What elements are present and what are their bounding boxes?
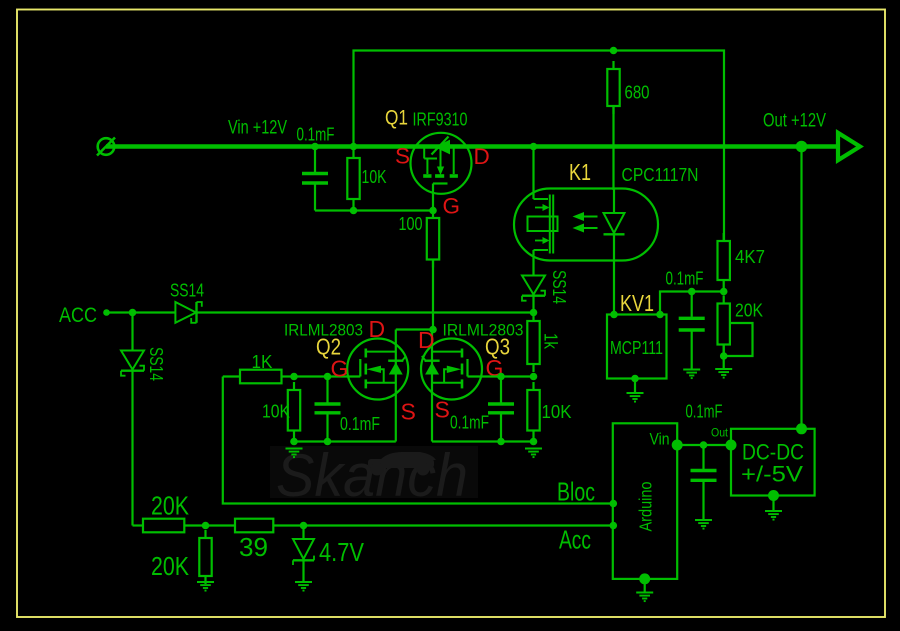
node Arduino GND pin (639, 573, 650, 584)
wire 100 to drain node (432, 260, 434, 330)
svg-text:0.1mF: 0.1mF (666, 269, 704, 289)
module Arduino box (613, 423, 677, 579)
svg-text:4K7: 4K7 (735, 247, 765, 267)
svg-text:Vin +12V: Vin +12V (228, 117, 287, 139)
output arrow Out +12V (838, 133, 860, 160)
svg-text:100: 100 (399, 214, 423, 234)
wire ACC line (107, 311, 176, 313)
resistor 10K Q3 (527, 382, 539, 439)
wire DC-DC ground stem (772, 496, 774, 512)
diode SS14 horizontal ACC (175, 302, 201, 323)
svg-text:680: 680 (625, 83, 650, 103)
node Q3 gate / C 0.1mF (497, 373, 505, 381)
node C-KV1 top (688, 288, 696, 296)
svg-text:IRF9310: IRF9310 (413, 110, 468, 130)
resistor 1K (240, 370, 282, 384)
node rail / K1 pin (530, 143, 538, 151)
resistor 100 (427, 210, 439, 268)
svg-text:G: G (443, 194, 461, 219)
svg-text:1K: 1K (252, 352, 273, 372)
node top bracket / 680 (610, 47, 618, 55)
svg-text:+/-5V: +/-5V (741, 462, 803, 487)
svg-text:D: D (418, 327, 435, 353)
svg-text:Arduino: Arduino (636, 482, 656, 532)
transistor Q2 IRLML2803 (347, 330, 408, 442)
svg-text:0.1mF: 0.1mF (340, 414, 380, 434)
wire KV1 ground stem (634, 379, 636, 394)
node Arduino Bloc pin (610, 500, 618, 508)
node Arduino Acc pin (610, 522, 618, 530)
svg-text:0.1mF: 0.1mF (297, 125, 335, 145)
svg-text:Vin: Vin (650, 430, 670, 449)
svg-text:K1: K1 (569, 159, 591, 185)
wire Arduino Vin to DC-DC (677, 444, 731, 446)
wire 20K tap (724, 323, 753, 356)
svg-text:MCP111: MCP111 (610, 338, 663, 358)
ground Q2 (286, 449, 303, 458)
wire left SS14 to Acc row (131, 371, 133, 526)
wire Q2 drain jog (396, 328, 433, 330)
svg-text:Acc: Acc (559, 525, 591, 555)
svg-text:Skanch: Skanch (276, 442, 468, 509)
svg-text:IRLML2803: IRLML2803 (443, 321, 524, 340)
K1 output MOSFET structure (528, 147, 558, 276)
resistor 20K horizontal (143, 519, 184, 533)
wire ACC to left SS14 (131, 313, 133, 351)
wire Bloc net (223, 377, 614, 504)
transistor Q1 IRF9310 P-MOSFET (411, 133, 472, 211)
resistor 10K Q2 (288, 382, 300, 439)
svg-text:10K: 10K (542, 402, 572, 422)
ground 20K right (715, 369, 732, 378)
svg-text:Q1: Q1 (385, 106, 408, 130)
node Q3 rail ground (530, 438, 538, 446)
wire main +12V rail (106, 144, 838, 149)
wire top bypass bracket (354, 51, 725, 242)
wire 1K to node (282, 375, 295, 377)
node ACC junction (129, 309, 137, 317)
svg-text:20K: 20K (151, 493, 189, 521)
node KV1 pin top-right (656, 311, 664, 319)
svg-text:20K: 20K (151, 553, 189, 581)
svg-text:39: 39 (239, 534, 268, 562)
wire 1K left stub (223, 375, 240, 377)
node 20K vertical tap (202, 522, 210, 530)
svg-text:ACC: ACC (59, 304, 97, 327)
transistor Q3 IRLML2803 (421, 330, 482, 442)
node 20K bottom (720, 352, 728, 360)
svg-text:Out: Out (711, 428, 729, 440)
svg-text:S: S (435, 397, 450, 423)
node D Q2/Q3 (429, 326, 437, 334)
node ACC / 1k chain (530, 309, 538, 317)
ground C-KV1 (683, 370, 700, 379)
K1 light arrows (573, 212, 598, 233)
K1 LED (604, 189, 625, 315)
svg-text:10K: 10K (362, 167, 387, 187)
capacitor C-Q3 0.1mF (488, 377, 514, 442)
node 10K bottom (350, 207, 358, 215)
node zener tap (300, 522, 308, 530)
node rail / DC-DC feed (796, 141, 808, 153)
wire Arduino ground stem (644, 579, 646, 593)
ground zener (295, 582, 312, 591)
node C-Q3 bottom (497, 438, 505, 446)
svg-text:0.1mF: 0.1mF (686, 402, 723, 422)
diode SS14 left vertical (121, 351, 144, 376)
svg-text:1k: 1k (541, 333, 561, 350)
node C-Q2 bottom (324, 438, 332, 446)
svg-text:SS14: SS14 (146, 347, 166, 381)
resistor 20K right (718, 296, 730, 353)
svg-text:CPC1117N: CPC1117N (622, 165, 699, 185)
svg-text:4.7V: 4.7V (319, 539, 364, 567)
wire Q2 source rail (294, 440, 396, 442)
node rail / C-in (311, 143, 319, 151)
wire Acc row to Arduino (273, 524, 613, 526)
ground C-DCDC (695, 520, 712, 529)
svg-text:0.1mF: 0.1mF (450, 413, 489, 433)
svg-text:S: S (401, 399, 416, 425)
ground KV1 (627, 393, 644, 402)
ground Arduino (636, 593, 653, 602)
svg-text:D: D (369, 316, 386, 342)
svg-text:SS14: SS14 (170, 281, 204, 301)
module DC-DC box (731, 429, 815, 496)
node Q1 gate (429, 207, 437, 215)
wire gate row under Q1 (315, 209, 433, 211)
node DC-DC Vin pin (726, 440, 737, 451)
wire 680 to K1 LED (612, 106, 614, 190)
svg-text:10K: 10K (262, 402, 290, 422)
zener diode 4.7V (293, 526, 314, 583)
node KV1 pin bottom (631, 375, 639, 383)
node DC-DC +12V pin (796, 423, 807, 434)
diode SS14 under K1 (522, 276, 545, 313)
node Q2 gate / 1K / 10K (290, 373, 298, 381)
wire Q3 source rail (432, 440, 534, 442)
svg-text:S: S (395, 144, 410, 169)
node ACC terminal (103, 309, 110, 316)
resistor 10K rail (347, 150, 359, 207)
svg-text:20K: 20K (735, 301, 763, 321)
watermark background (270, 446, 478, 498)
wire +12V feed to DC-DC (800, 147, 802, 429)
wire Acc bottom row (133, 524, 144, 526)
svg-text:KV1: KV1 (620, 290, 654, 316)
svg-text:SS14: SS14 (549, 270, 569, 304)
capacitor C-KV1 0.1mF (679, 292, 705, 370)
node KV1 pin top-left (610, 311, 618, 319)
IC KV1 MCP111 box (607, 315, 667, 379)
capacitor C-DCDC 0.1mF (691, 445, 717, 520)
wire KV1 to 4K7 node (660, 292, 724, 315)
node Q2 gate / C 0.1mF (324, 373, 332, 381)
resistor 39 (235, 519, 273, 533)
ground 20K vertical (197, 582, 214, 591)
wire 20K bottom (723, 345, 725, 357)
capacitor C-Q2 0.1mF (315, 377, 341, 442)
resistor 4K7 (718, 233, 730, 288)
svg-text:Bloc: Bloc (557, 477, 595, 507)
optocoupler K1 CPC1117N body (514, 189, 658, 261)
resistor 20K vertical (199, 530, 211, 584)
wire between 20K and 39 (184, 524, 235, 526)
resistor 680 (607, 61, 619, 114)
node Q2 rail ground (290, 438, 298, 446)
node Arduino Vin pin (672, 440, 683, 451)
ground Q3 (525, 449, 542, 458)
wire Q3 gate net (468, 375, 534, 377)
node rail / 10K / bracket (350, 143, 358, 151)
wire Q2 gate net (294, 375, 360, 377)
node 4K7 / 20K (720, 288, 728, 296)
node Q3 gate / 1k / 10K (530, 373, 538, 381)
ground DC-DC (765, 511, 782, 520)
node C-DCDC top (700, 441, 708, 449)
node DC-DC GND pin (768, 490, 779, 501)
svg-text:G: G (331, 356, 349, 382)
input connector Vin terminal (97, 138, 115, 156)
capacitor C-in 0.1mF (302, 147, 328, 211)
watermark car silhouette (368, 452, 436, 476)
resistor 1k Q3 chain (527, 313, 539, 372)
svg-text:Out +12V: Out +12V (763, 110, 826, 132)
svg-text:D: D (474, 144, 490, 169)
